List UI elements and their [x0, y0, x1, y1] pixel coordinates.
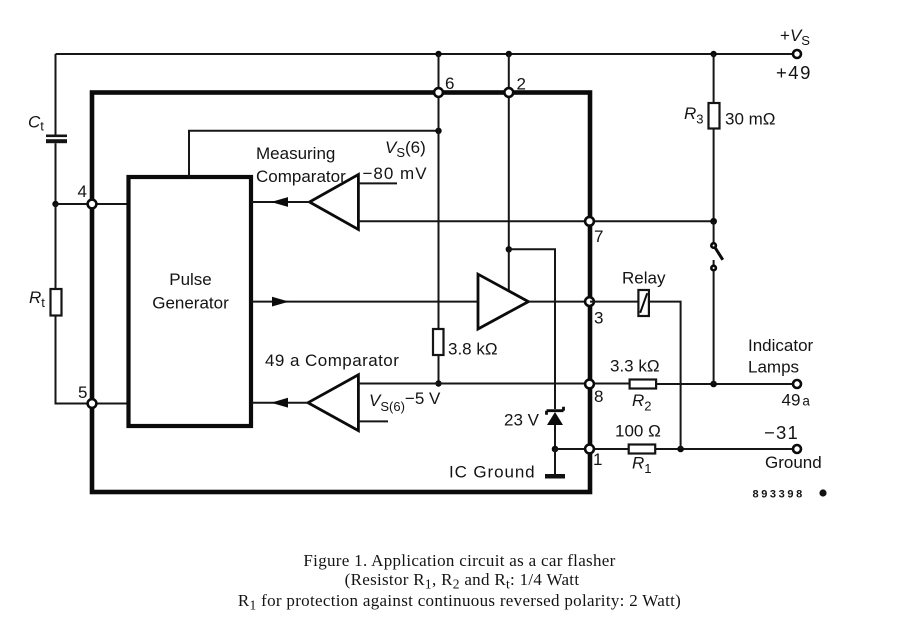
svg-text:Measuring: Measuring — [256, 144, 335, 163]
svg-text:VS(6): VS(6) — [385, 138, 426, 160]
terminal ground -31 — [764, 422, 822, 472]
svg-text:Comparator: Comparator — [256, 167, 346, 186]
wire Ct to node — [55, 143, 57, 204]
node junction 3.8k / comparator line — [435, 380, 441, 386]
svg-text:−31: −31 — [764, 422, 799, 443]
wire R3 to pin 7 line — [713, 129, 715, 222]
node junction relay drop / ground line — [677, 446, 684, 453]
svg-text:3.8 kΩ: 3.8 kΩ — [448, 340, 498, 359]
capacitor Ct — [28, 113, 67, 144]
wire node down to Rt — [55, 204, 57, 289]
node junction top rail to R3 — [710, 51, 716, 57]
pin 6 — [434, 74, 454, 97]
node junction top rail to pin 2 line — [506, 51, 512, 57]
svg-text:49a: 49a — [782, 391, 811, 410]
svg-text:Indicator: Indicator — [748, 336, 814, 355]
svg-text:Lamps: Lamps — [748, 358, 799, 377]
wire 49a line to pin 8 — [358, 383, 629, 385]
svg-text:Figure 1. Application circuit: Figure 1. Application circuit as a car f… — [303, 551, 615, 570]
wire R1 to ground terminal — [655, 448, 793, 450]
resistor R1 100 ohm — [615, 422, 661, 477]
switch flasher contact — [711, 221, 723, 384]
wire Rt to pin 5 — [56, 316, 129, 404]
wire pulse generator top to pin 6 line — [189, 131, 439, 177]
svg-text:Ground: Ground — [765, 453, 822, 472]
wire measuring comparator -80mV input stub — [358, 138, 427, 183]
svg-text:893398: 893398 — [753, 489, 805, 501]
caption figure title — [238, 551, 681, 613]
part number 893398 — [753, 489, 827, 501]
svg-text:Relay: Relay — [622, 269, 666, 288]
wire pin 2 vertical — [508, 54, 510, 249]
pin 3 — [585, 297, 603, 327]
wire pin 6 vertical — [438, 54, 440, 329]
svg-text:4: 4 — [78, 182, 87, 201]
node junction R3 / pin 7 line — [710, 218, 717, 225]
svg-text:2: 2 — [517, 75, 526, 94]
svg-text:Generator: Generator — [152, 294, 229, 313]
svg-text:−80 mV: −80 mV — [363, 164, 428, 183]
node junction switch / 49a line — [710, 381, 717, 388]
wire measuring comparator output to pulse generator — [251, 197, 310, 207]
wire R2 to 49a terminal — [656, 383, 793, 385]
svg-text:Pulse: Pulse — [169, 270, 212, 289]
resistor R3 30 mOhm — [684, 54, 776, 129]
svg-text:R1 for protection against cont: R1 for protection against continuous rev… — [238, 591, 681, 613]
node junction zener / pin1 line — [552, 446, 559, 453]
pin 1 — [585, 445, 602, 469]
resistor 3.8k — [433, 329, 498, 359]
wire node to pin 4 — [56, 203, 129, 205]
wire measuring comparator lower input to pin 7 — [358, 220, 713, 222]
op-amp 49a comparator — [265, 351, 399, 431]
wire left rail down from top to Ct — [55, 54, 57, 135]
zener diode 23V — [504, 407, 564, 430]
pin 8 — [585, 380, 603, 406]
svg-text:5: 5 — [78, 383, 87, 402]
svg-text:IC Ground: IC Ground — [449, 463, 536, 482]
wire zener to ground node — [554, 425, 556, 449]
op-amp output amplifier — [478, 274, 528, 329]
wire +VS top rail — [56, 53, 794, 55]
wire pin 1 line — [555, 448, 629, 450]
wire 3.8k to node — [438, 355, 440, 384]
svg-text:+49: +49 — [776, 62, 812, 83]
svg-text:6: 6 — [445, 74, 454, 93]
op-amp measuring comparator — [256, 144, 358, 230]
resistor R2 3.3k — [610, 357, 660, 414]
wire amplifier output to pin 3 — [528, 301, 590, 303]
svg-text:1: 1 — [593, 450, 602, 469]
svg-text:3.3 kΩ: 3.3 kΩ — [610, 357, 660, 376]
wire node to zener — [509, 249, 555, 409]
pin 4 — [78, 182, 97, 208]
svg-text:100 Ω: 100 Ω — [615, 422, 661, 441]
relay coil — [590, 269, 666, 317]
node junction Ct/Rt/pin4 — [52, 201, 58, 207]
wire node to amplifier top — [508, 249, 510, 291]
terminal 49a indicator lamps — [748, 336, 814, 410]
resistor Rt — [29, 288, 62, 316]
node junction top rail to pin 6 line — [435, 51, 441, 57]
terminal +VS — [776, 26, 812, 83]
svg-text:30 mΩ: 30 mΩ — [725, 110, 776, 129]
block Pulse Generator — [129, 177, 252, 426]
svg-text:3: 3 — [594, 309, 603, 328]
svg-text:7: 7 — [594, 227, 603, 246]
svg-text:8: 8 — [594, 387, 603, 406]
svg-text:23 V: 23 V — [504, 411, 540, 430]
IC ground symbol — [449, 449, 565, 482]
pin 7 — [585, 217, 603, 246]
pin 2 — [504, 75, 526, 97]
node junction pin2 / zener branch — [506, 246, 512, 252]
IC boundary box — [92, 93, 590, 493]
wire pulse generator output to amplifier — [251, 297, 478, 307]
node junction measuring wire / pin6 line — [435, 128, 441, 134]
wire 49a comparator -5V input stub — [358, 389, 441, 421]
svg-text:49 a Comparator: 49 a Comparator — [265, 351, 399, 370]
wire relay to ground line — [649, 302, 681, 449]
pin 5 — [78, 383, 96, 408]
svg-text:(Resistor R1, R2 and Rt: 1/4 W: (Resistor R1, R2 and Rt: 1/4 Watt — [345, 570, 580, 592]
wire 49a comparator output to pulse generator — [252, 398, 308, 408]
